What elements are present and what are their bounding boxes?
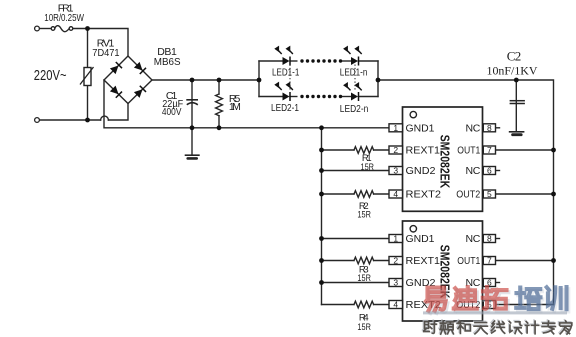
svg-text:15R: 15R: [357, 210, 371, 221]
svg-text:8: 8: [487, 234, 492, 244]
svg-text:1: 1: [393, 123, 398, 133]
svg-text:GND1: GND1: [406, 233, 435, 245]
svg-text:C2: C2: [507, 49, 522, 64]
svg-text:7: 7: [487, 256, 492, 266]
svg-text:400V: 400V: [162, 106, 182, 118]
svg-text:3: 3: [393, 166, 398, 176]
svg-text:220V~: 220V~: [34, 67, 67, 84]
svg-text:GND1: GND1: [406, 123, 435, 135]
svg-text:15R: 15R: [361, 162, 375, 173]
svg-text:MB6S: MB6S: [154, 56, 181, 68]
svg-text:NC: NC: [466, 123, 481, 135]
svg-text:15R: 15R: [357, 322, 371, 333]
svg-text:LED1-n: LED1-n: [340, 67, 368, 79]
svg-text:4: 4: [393, 189, 398, 199]
svg-text:8: 8: [487, 123, 492, 133]
svg-text:4: 4: [393, 300, 398, 310]
svg-text:OUT2: OUT2: [456, 189, 480, 201]
svg-text:7: 7: [487, 145, 492, 155]
svg-text:LED2-n: LED2-n: [340, 103, 369, 115]
svg-text:10R/0.25W: 10R/0.25W: [44, 12, 84, 24]
svg-text:OUT1: OUT1: [457, 145, 480, 157]
svg-text:NC: NC: [466, 165, 481, 177]
svg-text:6: 6: [487, 166, 492, 176]
svg-text:REXT1: REXT1: [406, 255, 441, 267]
svg-text:15R: 15R: [357, 273, 371, 284]
svg-text:LED1-1: LED1-1: [272, 67, 299, 79]
svg-text:1M: 1M: [229, 101, 241, 113]
svg-text:7D471: 7D471: [92, 47, 119, 59]
svg-text:10nF/1KV: 10nF/1KV: [487, 63, 538, 77]
svg-text:LED2-1: LED2-1: [271, 102, 299, 114]
svg-text:REXT1: REXT1: [406, 145, 441, 157]
svg-text:2: 2: [393, 256, 398, 266]
svg-text:OUT1: OUT1: [457, 255, 480, 267]
svg-text:REXT2: REXT2: [406, 189, 442, 201]
svg-text:5: 5: [487, 189, 492, 199]
svg-text:GND2: GND2: [406, 165, 436, 177]
svg-text:3: 3: [393, 278, 398, 288]
svg-text:SM2082EK: SM2082EK: [437, 135, 451, 189]
svg-text:1: 1: [393, 234, 398, 244]
svg-text:NC: NC: [466, 233, 481, 245]
svg-text:2: 2: [393, 145, 398, 155]
